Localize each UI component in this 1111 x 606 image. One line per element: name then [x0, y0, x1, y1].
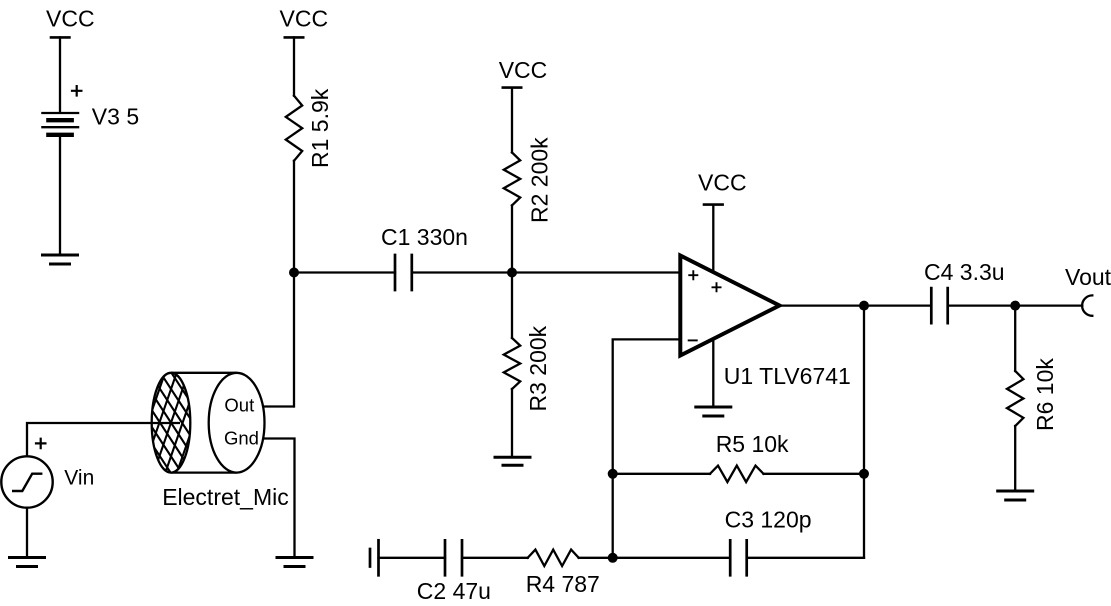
svg-text:V3 5: V3 5	[92, 103, 139, 129]
svg-text:VCC: VCC	[280, 6, 329, 32]
svg-text:R5 10k: R5 10k	[716, 431, 789, 457]
svg-text:Out: Out	[224, 394, 254, 415]
svg-text:R3 200k: R3 200k	[525, 325, 551, 411]
svg-text:VCC: VCC	[698, 169, 747, 195]
svg-text:R4 787: R4 787	[526, 571, 600, 597]
svg-text:C1 330n: C1 330n	[381, 224, 468, 250]
svg-text:R1 5.9k: R1 5.9k	[307, 88, 333, 168]
svg-text:Gnd: Gnd	[224, 427, 259, 448]
svg-text:C4 3.3u: C4 3.3u	[924, 259, 1005, 285]
svg-text:C2 47u: C2 47u	[417, 578, 491, 604]
svg-text:Vout: Vout	[1065, 264, 1111, 290]
svg-text:VCC: VCC	[499, 57, 548, 83]
svg-text:Electret_Mic: Electret_Mic	[162, 484, 289, 510]
svg-text:C3 120p: C3 120p	[725, 507, 812, 533]
svg-text:R6 10k: R6 10k	[1032, 358, 1058, 431]
svg-text:R2 200k: R2 200k	[527, 137, 553, 223]
svg-text:U1 TLV6741: U1 TLV6741	[724, 363, 851, 389]
svg-text:VCC: VCC	[46, 6, 95, 32]
svg-text:Vin: Vin	[64, 466, 94, 489]
